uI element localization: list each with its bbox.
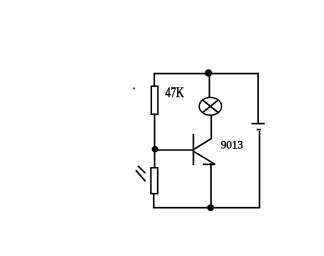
wire lamp top to top rail	[208, 73, 210, 98]
speck artifact	[133, 87, 135, 89]
wire top rail	[154, 73, 259, 75]
wire emitter down to bottom rail	[210, 163, 212, 208]
lamp L1 circle	[199, 97, 221, 115]
wire collector up to lamp	[210, 115, 212, 139]
resistor R1 body	[151, 86, 158, 114]
wire bottom rail	[153, 207, 260, 209]
wire R1 bottom to node A	[154, 114, 156, 150]
wire right rail upper	[257, 73, 259, 123]
lamp L1 cross stroke 2	[203, 100, 219, 113]
wire from top rail down to R1	[153, 73, 155, 87]
transistor Q1 emitter arrow tick	[203, 163, 216, 165]
transistor Q1 emitter diagonal	[194, 152, 215, 164]
transistor Q1 base bar	[192, 134, 194, 165]
light arrow upper on LDR	[138, 166, 146, 173]
battery B1 negative plate	[257, 129, 261, 131]
svg-text:9013: 9013	[221, 139, 243, 151]
node top junction	[205, 69, 212, 76]
svg-text:47K: 47K	[165, 85, 184, 101]
wire node A down to LDR	[154, 149, 156, 168]
node A junction dot left	[152, 146, 159, 153]
transistor Q1 collector diagonal	[194, 139, 212, 150]
node bottom junction	[207, 204, 214, 211]
wire right rail lower	[259, 131, 261, 208]
wire LDR bottom to bottom rail	[153, 194, 155, 209]
lamp L1 cross stroke 1	[203, 100, 219, 113]
light arrow lower on LDR	[136, 170, 146, 181]
photoresistor R2 (LDR) body	[151, 168, 158, 194]
wire base lead from node A to Q1 base	[155, 149, 194, 151]
battery B1 positive plate	[251, 123, 264, 125]
